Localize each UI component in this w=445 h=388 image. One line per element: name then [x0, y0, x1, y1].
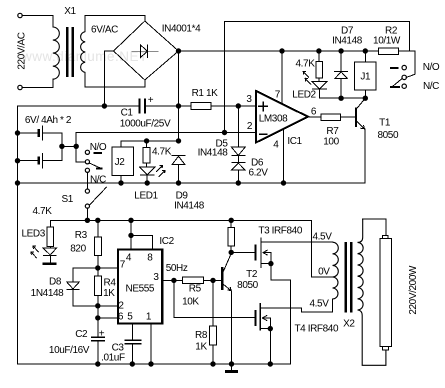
svg-text:X1: X1 [64, 6, 76, 17]
svg-text:10K: 10K [182, 297, 199, 308]
svg-text:N/C: N/C [90, 175, 106, 186]
svg-text:2: 2 [118, 301, 124, 312]
svg-text:6.2V: 6.2V [249, 168, 269, 179]
svg-text:IN4148: IN4148 [174, 200, 205, 211]
svg-text:R3: R3 [75, 230, 88, 241]
svg-text:6V/AC: 6V/AC [91, 25, 118, 36]
svg-text:8050: 8050 [377, 130, 398, 141]
svg-text:6: 6 [311, 107, 317, 118]
svg-text:J1: J1 [360, 72, 371, 83]
svg-text:3: 3 [246, 94, 252, 105]
svg-text:1: 1 [146, 312, 152, 323]
svg-text:6V/ 4Ah * 2: 6V/ 4Ah * 2 [25, 115, 72, 126]
svg-text:N/C: N/C [423, 81, 439, 92]
svg-text:+: + [99, 329, 105, 340]
svg-text:C1: C1 [121, 108, 134, 119]
svg-text:T2: T2 [246, 269, 258, 280]
svg-text:7: 7 [275, 90, 281, 101]
svg-text:4.7K: 4.7K [296, 59, 316, 70]
svg-text:1N4148: 1N4148 [31, 288, 64, 299]
svg-text:X2: X2 [343, 319, 355, 330]
svg-text:S1: S1 [61, 194, 73, 205]
svg-text:4.5V: 4.5V [313, 232, 333, 243]
svg-text:R4: R4 [104, 278, 117, 289]
svg-text:1000uF/25V: 1000uF/25V [120, 119, 171, 130]
svg-text:1K: 1K [103, 288, 115, 299]
svg-text:R7: R7 [326, 126, 339, 137]
svg-text:R8: R8 [195, 330, 208, 341]
svg-text:10/1W: 10/1W [373, 36, 401, 47]
svg-text:T1: T1 [379, 118, 391, 129]
svg-text:1K: 1K [195, 342, 207, 353]
svg-text:4: 4 [126, 253, 132, 264]
svg-text:J2: J2 [115, 157, 126, 168]
svg-text:3: 3 [153, 272, 159, 283]
svg-text:NE555: NE555 [126, 284, 155, 295]
svg-text:LED3: LED3 [21, 228, 45, 239]
svg-text:N/O: N/O [90, 142, 107, 153]
svg-text:8050: 8050 [237, 280, 258, 291]
svg-text:D8: D8 [49, 277, 62, 288]
svg-text:4.5V: 4.5V [310, 299, 330, 310]
svg-text:IC1: IC1 [287, 136, 302, 147]
svg-text:6: 6 [118, 312, 124, 323]
svg-text:7: 7 [120, 260, 126, 271]
svg-text:LED2: LED2 [292, 90, 316, 101]
svg-text:IC2: IC2 [159, 236, 174, 247]
svg-text:T4 IRF840: T4 IRF840 [294, 324, 338, 335]
svg-text:+: + [148, 95, 154, 106]
svg-text:50Hz: 50Hz [166, 263, 188, 274]
svg-text:4: 4 [273, 140, 279, 151]
svg-text:0V: 0V [318, 267, 330, 278]
svg-text:8: 8 [147, 253, 153, 264]
svg-text:LED1: LED1 [134, 191, 158, 202]
svg-text:R5: R5 [189, 284, 202, 295]
svg-text:IN4148: IN4148 [198, 147, 229, 158]
svg-text:IN4001*4: IN4001*4 [162, 24, 201, 35]
svg-text:220V/200W: 220V/200W [408, 265, 419, 315]
svg-text:4.7K: 4.7K [33, 206, 53, 217]
svg-text:5: 5 [127, 312, 133, 323]
svg-text:820: 820 [70, 244, 86, 255]
svg-text:IN4148: IN4148 [332, 36, 363, 47]
svg-text:4.7K: 4.7K [152, 147, 172, 158]
svg-text:T3 IRF840: T3 IRF840 [258, 226, 302, 237]
svg-text:.01uF: .01uF [101, 353, 125, 364]
svg-text:C2: C2 [75, 329, 88, 340]
svg-text:N/O: N/O [423, 62, 440, 73]
svg-text:10uF/16V: 10uF/16V [49, 345, 90, 356]
svg-text:2: 2 [247, 121, 253, 132]
svg-text:100: 100 [323, 137, 339, 148]
svg-text:LM308: LM308 [259, 114, 288, 125]
svg-text:220V/AC: 220V/AC [17, 32, 28, 69]
svg-text:R1 1K: R1 1K [192, 88, 219, 99]
